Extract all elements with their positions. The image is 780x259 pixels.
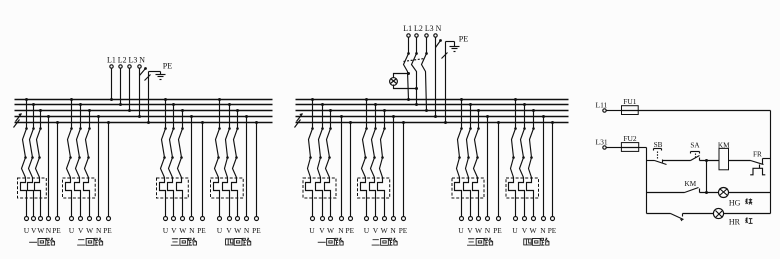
- node L31 terminal: [596, 138, 608, 150]
- wire left rail to KM auxiliary contact: [647, 192, 685, 194]
- lamp HG green: [719, 188, 729, 198]
- svg-text:W: W: [37, 226, 45, 235]
- wire left rail: [646, 148, 648, 214]
- wire circuit 3 left phase C with breaker QF and contactor poles: [177, 109, 185, 217]
- terminals circuit 3 left U V W N PE: [164, 217, 205, 221]
- terminals circuit 2 left U V W N PE: [70, 217, 111, 221]
- wire supply L3 to busbar (left panel): [128, 69, 131, 113]
- svg-text:V: V: [319, 226, 325, 235]
- wire supply N with disconnect blade (left panel): [138, 67, 147, 118]
- N busbar (left panel): [15, 116, 273, 118]
- wire circuit 2 middle N: [392, 115, 395, 217]
- svg-text:FU1: FU1: [623, 97, 637, 106]
- svg-text:KM: KM: [718, 141, 730, 149]
- svg-text:PE: PE: [103, 226, 112, 235]
- terminals circuit 1 left U V W N PE: [25, 217, 60, 221]
- svg-text:PE: PE: [52, 226, 61, 235]
- wire circuit 4 left PE: [255, 121, 258, 217]
- wire circuit 4 middle phase C with breaker QF and contactor poles: [527, 109, 536, 217]
- thermal relay FR circuit 1 left (dashed box): [18, 178, 47, 198]
- continuation slash on PE busbar (middle panel): [295, 120, 301, 128]
- svg-text:U: U: [309, 226, 315, 235]
- svg-text:W: W: [86, 226, 94, 235]
- thermal relay FR circuit 3 left (dashed box): [157, 178, 189, 198]
- wire lamp top to phase A (middle panel): [394, 72, 411, 78]
- terminals circuit 2 middle U V W N PE: [365, 217, 406, 221]
- L2 phase busbar (middle panel): [296, 104, 569, 106]
- wire circuit 2 middle phase A with breaker QF and contactor poles: [361, 98, 369, 217]
- wire supply L2 to busbar (left panel): [119, 69, 122, 107]
- svg-text:HR: HR: [729, 217, 741, 226]
- wire left rail bottom to KM NC contact: [647, 213, 671, 215]
- svg-text:V: V: [171, 226, 177, 235]
- label circuit name circuit 1 middle: [318, 238, 344, 245]
- wire circuit 3 middle N: [486, 115, 489, 217]
- label circuit 2 left U V W N PE: [69, 226, 113, 235]
- wire circuit 3 middle PE: [497, 121, 500, 217]
- svg-text:N: N: [485, 226, 491, 235]
- thermal relay FR circuit 3 middle (dashed box): [452, 178, 484, 198]
- svg-text:HG: HG: [729, 199, 741, 208]
- wire lamp HG to right rail: [729, 192, 771, 194]
- svg-text:FR: FR: [753, 151, 762, 159]
- svg-text:V: V: [467, 226, 473, 235]
- wire circuit 2 left phase A with breaker QF and contactor poles: [66, 98, 74, 217]
- thermal relay FR circuit 2 middle (dashed box): [358, 178, 390, 198]
- wire circuit 4 left N: [245, 115, 248, 217]
- wire top rail from FU1 to right rail: [639, 110, 771, 112]
- wire circuit 1 middle phase C with breaker QF and contactor poles: [325, 109, 333, 217]
- svg-text:PE: PE: [493, 226, 502, 235]
- contact KM auxiliary (NO): [685, 180, 700, 192]
- svg-text:N: N: [189, 226, 195, 235]
- svg-text:U: U: [217, 226, 223, 235]
- svg-text:L1 L2 L3 N: L1 L2 L3 N: [403, 24, 441, 33]
- wire KM contact to lamp HG: [700, 192, 719, 194]
- thermal relay FR circuit 1 middle (dashed box): [303, 178, 336, 198]
- L1 phase busbar (middle panel): [296, 99, 569, 101]
- wire supply L3 through main switch QS pole (middle panel): [422, 38, 429, 113]
- wire circuit 4 middle phase A with breaker QF and contactor poles: [509, 98, 518, 217]
- wire circuit 1 middle PE: [349, 121, 352, 217]
- svg-text:PE: PE: [346, 226, 355, 235]
- svg-text:N: N: [96, 226, 102, 235]
- label HR red: [729, 217, 753, 226]
- svg-text:V: V: [31, 226, 37, 235]
- label circuit 3 left U V W N PE: [163, 226, 207, 235]
- ground PE (middle panel): [446, 42, 460, 52]
- svg-text:KM: KM: [685, 180, 697, 188]
- label L1 L2 L3 N (middle panel supply): [403, 24, 441, 33]
- wire circuit 4 middle N: [542, 115, 545, 217]
- svg-text:N: N: [46, 226, 52, 235]
- pushbutton SB (stop, NC): [654, 141, 667, 165]
- supply terminals L1 L2 L3 N (middle panel): [407, 34, 437, 37]
- svg-text:U: U: [364, 226, 370, 235]
- L2 phase busbar (left panel): [15, 104, 273, 106]
- thermal relay FR circuit 4 left (dashed box): [211, 178, 244, 198]
- wire circuit 2 left PE: [107, 121, 110, 217]
- thermal relay contact FR (NC): [750, 151, 770, 175]
- continuation arrow on N busbar (middle panel): [297, 113, 303, 121]
- svg-text:PE: PE: [163, 62, 173, 71]
- wire circuit 2 middle phase C with breaker QF and contactor poles: [378, 109, 387, 217]
- label circuit name circuit 2 left: [77, 238, 103, 245]
- wire supply L1 through main switch QS pole (middle panel): [404, 38, 411, 102]
- thermal relay FR circuit 2 left (dashed box): [63, 178, 96, 198]
- indicator lamp EL (middle panel): [390, 78, 398, 86]
- wire circuit 2 left N: [97, 115, 100, 217]
- wire circuit 4 left phase C with breaker QF and contactor poles: [232, 109, 240, 217]
- wire circuit 3 left phase B with breaker QF and contactor poles: [168, 103, 176, 217]
- svg-text:U: U: [69, 226, 75, 235]
- label PE (left panel): [163, 62, 173, 71]
- svg-text:U: U: [163, 226, 169, 235]
- label circuit 1 middle U V W N PE: [309, 226, 354, 235]
- label circuit 4 middle U V W N PE: [512, 226, 557, 235]
- terminals circuit 3 middle U V W N PE: [460, 217, 501, 221]
- label circuit name circuit 3 left: [171, 238, 197, 245]
- ground PE (left panel): [149, 72, 166, 80]
- wire circuit 3 left N: [190, 115, 193, 217]
- wire circuit 3 middle phase A with breaker QF and contactor poles: [455, 98, 464, 217]
- svg-text:W: W: [529, 226, 537, 235]
- label circuit 2 middle U V W N PE: [364, 226, 408, 235]
- wire L11 to FU1: [607, 110, 622, 112]
- wire circuit 4 middle phase B with breaker QF and contactor poles: [519, 103, 527, 217]
- label circuit 1 left U V W N PE: [24, 226, 62, 235]
- wire circuit 1 middle phase B with breaker QF and contactor poles: [316, 103, 325, 217]
- N busbar (middle panel): [296, 116, 569, 118]
- wire circuit 1 left phase C with breaker QF and contactor poles: [35, 109, 43, 217]
- wire supply L1 to busbar (left panel): [110, 69, 113, 102]
- wire circuit 2 left phase C with breaker QF and contactor poles: [84, 109, 92, 217]
- wire circuit 2 left phase B with breaker QF and contactor poles: [75, 103, 83, 217]
- label circuit 4 left U V W N PE: [217, 226, 261, 235]
- wire lamp HR to right rail: [724, 213, 771, 215]
- contact KM auxiliary (NC) for HR lamp: [671, 214, 684, 222]
- label PE (middle panel): [459, 35, 469, 44]
- PE busbar (middle panel): [296, 122, 569, 124]
- wire junction A down to lamp rung, node B: [705, 161, 708, 195]
- svg-text:FU2: FU2: [623, 134, 637, 143]
- continuation slash on PE busbar (left panel): [14, 120, 20, 128]
- wire left rail to SB: [647, 160, 655, 162]
- wire circuit 1 left PE: [56, 121, 59, 217]
- L3 phase busbar (left panel): [15, 110, 273, 112]
- wire PE down to PE busbar with earthing slash (left panel): [145, 72, 151, 125]
- main switch QS linkage (middle panel): [404, 59, 425, 62]
- wire circuit 3 left PE: [201, 121, 204, 217]
- node L11 terminal: [596, 101, 608, 113]
- fuse FU1: [622, 97, 639, 115]
- label circuit name circuit 1 left: [29, 238, 55, 245]
- pushbutton SA (start, NO): [690, 142, 700, 161]
- L3 phase busbar (middle panel): [296, 110, 569, 112]
- svg-text:U: U: [512, 226, 518, 235]
- wire circuit 2 middle PE: [402, 121, 405, 217]
- svg-text:V: V: [78, 226, 84, 235]
- label circuit name circuit 3 middle: [467, 238, 493, 245]
- svg-text:W: W: [381, 226, 389, 235]
- PE busbar (left panel): [15, 122, 273, 124]
- label L1 L2 L3 N (left panel supply): [107, 55, 145, 64]
- svg-text:V: V: [522, 226, 528, 235]
- wire PE down to PE busbar with earthing slash (middle panel): [442, 42, 448, 125]
- wire circuit 1 left N: [47, 115, 50, 217]
- wire KM NC contact to lamp HR: [683, 213, 714, 215]
- continuation arrow on N busbar (left panel): [16, 113, 22, 121]
- svg-text:PE: PE: [399, 226, 408, 235]
- wire circuit 3 middle phase B with breaker QF and contactor poles: [464, 103, 473, 217]
- svg-text:L31: L31: [596, 138, 608, 147]
- svg-text:V: V: [226, 226, 232, 235]
- svg-text:N: N: [244, 226, 250, 235]
- wire FU2 to left rail corner: [639, 147, 647, 149]
- svg-text:L11: L11: [596, 101, 608, 110]
- wire circuit 3 left phase A with breaker QF and contactor poles: [160, 98, 168, 217]
- svg-text:PE: PE: [459, 35, 469, 44]
- wire circuit 4 middle PE: [551, 121, 554, 217]
- thermal relay FR circuit 4 middle (dashed box): [506, 178, 539, 198]
- supply terminals L1 L2 L3 N (left panel): [110, 65, 141, 68]
- svg-text:W: W: [234, 226, 242, 235]
- L1 phase busbar (left panel): [15, 99, 273, 101]
- wire circuit 4 left phase A with breaker QF and contactor poles: [214, 98, 222, 217]
- wire circuit 4 left phase B with breaker QF and contactor poles: [223, 103, 232, 217]
- terminals circuit 1 middle U V W N PE: [311, 217, 353, 221]
- svg-text:PE: PE: [548, 226, 557, 235]
- wire KM coil to FR contact: [729, 160, 751, 162]
- svg-text:W: W: [475, 226, 483, 235]
- label circuit name circuit 4 left: [226, 238, 252, 245]
- svg-text:U: U: [24, 226, 30, 235]
- svg-text:W: W: [327, 226, 335, 235]
- wire supply L2 through main switch QS pole (middle panel): [412, 38, 419, 107]
- label circuit name circuit 2 middle: [372, 238, 398, 245]
- wire circuit 1 middle phase A with breaker QF and contactor poles: [306, 98, 315, 217]
- wire right rail: [770, 111, 772, 214]
- lamp HR red: [713, 208, 723, 218]
- wire SB to SA: [663, 160, 691, 162]
- wire circuit 1 middle N: [340, 115, 343, 217]
- wire circuit 3 middle phase C with breaker QF and contactor poles: [473, 109, 481, 217]
- svg-text:N: N: [540, 226, 546, 235]
- svg-text:PE: PE: [197, 226, 206, 235]
- wire supply N with disconnect blade (middle panel): [434, 38, 442, 119]
- contactor coil KM: [718, 141, 730, 169]
- label HG green: [729, 198, 752, 207]
- svg-text:PE: PE: [252, 226, 261, 235]
- svg-text:SA: SA: [690, 142, 700, 150]
- wire circuit 2 middle phase B with breaker QF and contactor poles: [370, 103, 378, 217]
- fuse FU2: [621, 134, 638, 151]
- wire lamp bottom to phase B (middle panel): [394, 85, 419, 91]
- label circuit 3 middle U V W N PE: [458, 226, 502, 235]
- wire L31 to FU2: [607, 147, 622, 149]
- svg-text:SB: SB: [654, 141, 663, 149]
- label circuit name circuit 4 middle: [524, 238, 550, 245]
- wire SA to KM coil, junction node A: [700, 159, 720, 162]
- svg-text:U: U: [458, 226, 464, 235]
- terminals circuit 4 left U V W N PE: [218, 217, 259, 221]
- svg-text:N: N: [390, 226, 396, 235]
- svg-text:N: N: [338, 226, 344, 235]
- terminals circuit 4 middle U V W N PE: [514, 217, 555, 221]
- svg-text:V: V: [373, 226, 379, 235]
- svg-text:L1 L2 L3 N: L1 L2 L3 N: [107, 55, 145, 64]
- wire circuit 1 left phase A with breaker QF and contactor poles: [21, 98, 29, 217]
- wire circuit 1 left phase B with breaker QF and contactor poles: [28, 103, 36, 217]
- svg-text:W: W: [179, 226, 187, 235]
